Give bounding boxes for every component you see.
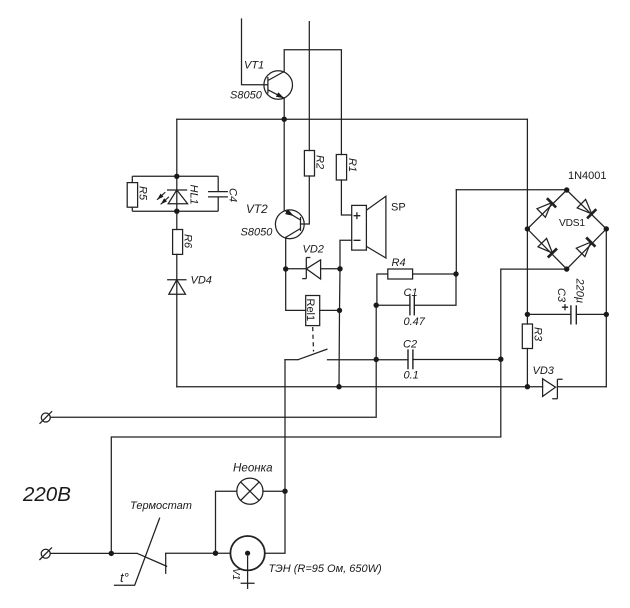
svg-text:Термостат: Термостат	[130, 500, 192, 512]
wire: VD2 leads	[286, 268, 340, 270]
svg-text:VD3: VD3	[533, 365, 555, 377]
wire: R4 right lead	[413, 273, 456, 275]
C3 plus sign	[562, 304, 568, 310]
node: R4/C1 right	[453, 271, 458, 276]
wire: R2 bottom to VT2 base	[301, 176, 310, 224]
diode VD4	[167, 279, 186, 281]
node: group top	[174, 174, 179, 179]
wire: R4 left lead down to C1 left node	[377, 274, 388, 305]
capacitor C4	[208, 176, 228, 211]
wire: main top rail y=119.2	[177, 118, 528, 120]
bridge diode D4 bottom-right	[576, 242, 591, 257]
wire: left branch vertical x=176.8	[176, 119, 178, 387]
capacitor C1	[410, 295, 414, 315]
resistor R5	[127, 183, 137, 208]
neon lamp	[237, 478, 263, 504]
R5/HL1/C4 parallel group rails	[132, 176, 218, 211]
wire: bridge bottom node left-down vertical x=500.8	[111, 269, 566, 553]
svg-text:V1: V1	[230, 568, 241, 580]
node: C1 left	[374, 303, 379, 308]
relay linkage dashed	[312, 327, 315, 352]
node: VD2 right	[337, 266, 342, 271]
node: rel line bottom rail	[336, 384, 341, 389]
svg-text:R3: R3	[532, 327, 544, 342]
relay coil Rel1	[306, 296, 320, 326]
wire: Rel1 right connection	[320, 309, 340, 311]
svg-text:VD4: VD4	[191, 275, 212, 287]
resistor R2	[304, 151, 314, 177]
svg-text:220В: 220В	[22, 483, 71, 506]
svg-text:SP: SP	[391, 202, 406, 214]
transistor VT2	[275, 210, 304, 239]
svg-text:C3: C3	[555, 288, 567, 303]
svg-text:VDS1: VDS1	[559, 218, 585, 229]
svg-text:t°: t°	[120, 570, 129, 585]
svg-text:C2: C2	[403, 339, 417, 351]
capacitor C3	[571, 305, 576, 324]
LED HL1	[167, 189, 187, 191]
bridge rectifier VDS1 diamond	[527, 190, 606, 269]
node: C2 right	[498, 357, 503, 362]
bridge diode D3 bottom-left	[538, 238, 552, 253]
wire: thermostat right post to TEH circle	[166, 552, 231, 554]
speaker SP	[352, 205, 367, 250]
wire: C3 wire y=314.4	[527, 313, 606, 315]
svg-text:C1: C1	[404, 287, 418, 299]
wire: right bridge-left vertical x=527.4	[526, 119, 528, 387]
thermostat contact	[137, 553, 168, 566]
zener diode VD3	[552, 379, 562, 399]
node: bridge top	[564, 187, 569, 192]
node: C3 left	[525, 312, 530, 317]
wire: VT1 base feed from top edge	[242, 19, 268, 85]
terminal B (circle with slash)	[41, 549, 50, 558]
svg-text:C4: C4	[227, 188, 239, 202]
svg-text:Неонка: Неонка	[233, 462, 273, 475]
wire: R4 node down-left to C1 right plate	[414, 274, 456, 305]
resistor R6	[173, 230, 183, 255]
wire: x=456.3 vertical down to R4 node	[455, 190, 457, 274]
wire: neon right lead	[263, 490, 285, 492]
heater TEH	[230, 536, 264, 570]
node: C2 left	[374, 357, 379, 362]
svg-text:Rel1: Rel1	[304, 299, 316, 322]
svg-text:VT1: VT1	[244, 60, 264, 72]
svg-text:R6: R6	[182, 234, 194, 249]
svg-text:1N4001: 1N4001	[568, 170, 607, 182]
wire: switch-left / lamp branch vertical x=285	[265, 360, 285, 554]
svg-text:220µ: 220µ	[574, 278, 586, 304]
zener diode VD2	[302, 258, 310, 279]
bridge diode D2 top-right	[577, 199, 592, 213]
wire: neon branch from mains node up	[216, 491, 237, 553]
resistor R4	[388, 269, 413, 279]
wire: C1 left lead	[376, 304, 410, 306]
wire: VT1 collector up-over-down to R1	[284, 50, 341, 155]
node: group bottom	[174, 209, 179, 214]
wire: top right rail y=189.7 to bridge top	[456, 189, 566, 191]
wire: bottom mains wire y=553.2 left section	[50, 552, 137, 554]
wire: bridge right vertical x=606.2	[605, 229, 607, 387]
wire: VT2 collector down to VD2 node	[285, 237, 287, 269]
node: bridge right	[604, 226, 609, 231]
svg-text:ТЭН (R=95 Ом, 650W): ТЭН (R=95 Ом, 650W)	[269, 563, 382, 575]
node: lamp right	[282, 489, 287, 494]
wire: speaker minus to VD2 right node	[340, 240, 352, 269]
svg-text:R4: R4	[392, 257, 406, 269]
node: lamp branch bottom	[213, 551, 218, 556]
svg-text:R5: R5	[137, 186, 149, 201]
svg-text:R2: R2	[314, 155, 326, 169]
node: bridge bottom	[564, 266, 569, 271]
node: VD2 left	[283, 266, 288, 271]
svg-text:0.1: 0.1	[404, 370, 419, 382]
wire: R1 bottom to speaker plus	[341, 180, 351, 215]
wire: VD2 node down to relay coil	[286, 269, 306, 310]
node: bridge left	[525, 226, 530, 231]
bridge diode D1 top-left	[537, 203, 552, 218]
transistor VT1	[264, 71, 293, 100]
capacitor C2	[408, 349, 413, 369]
svg-text:S8050: S8050	[230, 90, 263, 102]
wire: relay switch left stub	[285, 359, 298, 361]
node: VT1 emitter / top rail	[282, 117, 287, 122]
relay switch arm	[298, 349, 328, 360]
svg-text:VD2: VD2	[303, 244, 324, 256]
node: Rel1 right	[337, 308, 342, 313]
wire: VD2 right node down through Rel1 right to bottom rail	[339, 269, 340, 387]
wire: VT1 emitter / VT2 emitter vertical	[283, 98, 285, 211]
node: R3 bottom / VD3	[525, 384, 530, 389]
svg-text:VT2: VT2	[246, 202, 268, 216]
node: C3 right	[604, 312, 609, 317]
wire: relay switch right lead through C2	[328, 359, 501, 361]
svg-text:S8050: S8050	[241, 227, 274, 239]
svg-text:0.47: 0.47	[404, 316, 426, 328]
svg-text:R1: R1	[346, 158, 358, 172]
resistor R1	[336, 155, 346, 181]
node: mains left	[109, 551, 114, 556]
resistor R3	[522, 324, 532, 349]
wire: C1 node down to C2 wire and further down-left to terminal A	[50, 305, 376, 417]
wire: bottom long rail y=386.7	[177, 386, 606, 388]
terminal A (circle with slash)	[41, 413, 50, 422]
svg-text:HL1: HL1	[188, 185, 200, 205]
wire: R2 feed from top edge	[308, 22, 310, 151]
